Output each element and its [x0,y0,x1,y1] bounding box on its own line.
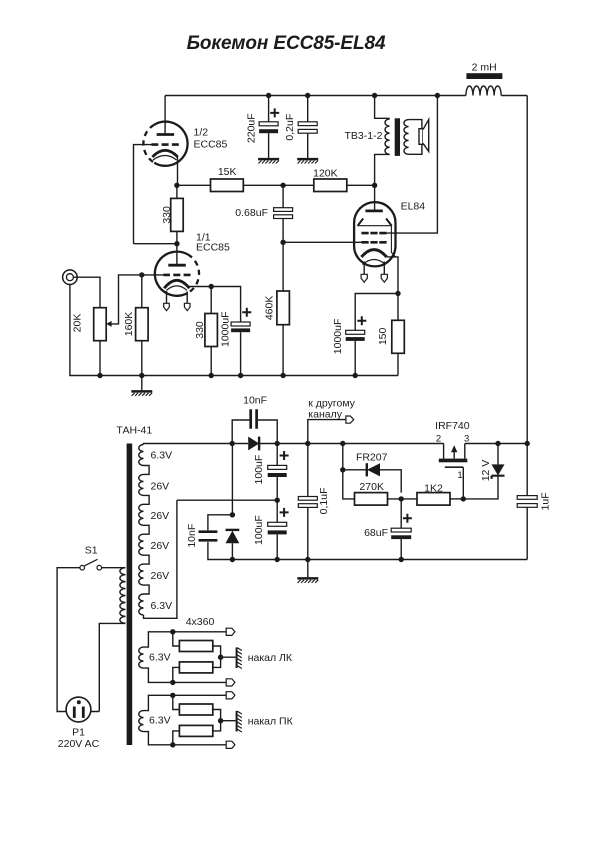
junction dot [275,557,280,562]
capacitor 68uF plus sign [403,514,412,523]
capacitor 0,2uF lead bottom [307,133,309,158]
svg-text:68uF: 68uF [364,527,388,539]
svg-text:0,2uF: 0,2uF [284,114,296,141]
tube V1 grid dashes [152,143,179,146]
junction dot [170,693,175,698]
capacitor 1000uF EL84 bottom lead [354,341,356,376]
input jack X1 [63,270,78,285]
capacitor 100uF lower plus plate [268,522,287,526]
capacitor 0,1uF leads [307,444,309,560]
resistor 360 R2 [173,667,180,682]
tube V1 grid lead [134,145,152,244]
diode D1 [248,437,259,451]
svg-text:2 mH: 2 mH [472,62,497,74]
tube V3 anode lead [374,185,376,211]
junction dot [275,441,280,446]
arrow output filament1 bottom [226,679,235,686]
junction dot [280,183,285,188]
svg-text:160K: 160K [123,312,135,337]
junction dot [97,373,102,378]
svg-text:460K: 460K [264,296,276,321]
capacitor 100uF upper leads [276,444,278,501]
svg-text:10nF: 10nF [243,394,267,406]
svg-text:12 V: 12 V [480,460,492,482]
transformer TAH-41 core bar [127,444,133,746]
tube V2 heater leads [167,291,188,303]
tube V1 1/2 ECC85 envelope [154,122,187,166]
transformer TAH-41 filament winding 6.3V upper [139,647,144,668]
tube V3 cathode lead [387,257,398,294]
wire mains right [102,567,126,569]
svg-text:2: 2 [436,434,441,445]
junction dot [170,742,175,747]
capacitor 100uF upper minus plate [268,473,287,477]
transformer TAH-41 filament winding 6.3V lower [139,711,144,732]
tube V2 anode plate [168,264,186,267]
tube V2 grid dashes [163,274,190,277]
capacitor 220uF minus plate [259,129,278,133]
tube V2 cathode lead [189,286,212,288]
capacitor 68uF leads [400,499,402,560]
svg-text:6.3V: 6.3V [149,652,171,664]
wire filament1 top [144,632,227,647]
transformer TAH-41 HV secondary winding 26V [139,534,149,564]
transformer TAH-41 HV secondary winding 26V [139,504,149,534]
inductor L1 2mH coil [466,86,501,96]
transistor Q1 IRF740 body bar [439,459,468,463]
capacitor 10nF plates [251,409,257,428]
svg-text:ТАН-41: ТАН-41 [116,425,152,437]
capacitor 100uF lower minus plate [268,530,287,534]
junction dot [495,441,500,446]
junction dot [372,93,377,98]
tube V2 heater pin [164,303,170,310]
wire resistor midpoint lower [213,710,236,731]
tube V1 cathode arc [152,150,177,157]
junction dot [275,498,280,503]
wire resistor midpoint [213,646,236,667]
capacitor 0.68uF plates [274,208,293,212]
wire primary bottom to plug [91,623,126,711]
capacitor 68uF plus plate [391,528,411,532]
diode D2 leads [231,444,233,560]
wire filament1 bottom [144,668,227,682]
wire right B+ drop [526,96,528,444]
svg-text:10nF: 10nF [186,524,198,548]
junction dot [280,240,285,245]
capacitor 1000uF EL84 minus plate [346,337,365,341]
svg-text:330: 330 [194,321,206,339]
junction dot [174,183,179,188]
wire HV secondary top tap [144,444,233,445]
capacitor 1000uF cathode leads [211,287,240,376]
junction dot [525,441,530,446]
resistor 330 anode [176,185,178,243]
potentiometer 20K body [94,308,107,341]
svg-text:3: 3 [464,434,469,445]
junction dot [230,441,235,446]
tube V2 heater arc [166,286,187,291]
speaker LS1 [419,129,423,145]
capacitor 1000uF plus plate [231,322,250,326]
wire filament2 top [144,695,227,710]
wire grid node to pot wiper [111,275,142,324]
resistor 15K [177,184,283,186]
wire EL84 control grid feed [283,241,361,243]
inductor L1 core bar [466,73,502,79]
capacitor 1uF plates [517,496,537,500]
arrow output filament1 top [226,628,235,635]
diode FR207 leads [343,470,401,493]
junction dot [435,93,440,98]
svg-text:накал ПК: накал ПК [248,715,294,727]
zener diode 12V leads [463,444,498,499]
capacitor 100uF upper plus plate [268,465,287,469]
transformer TB3-1-2 primary winding [385,119,390,154]
resistor 330 cathode [210,287,212,376]
junction dot [280,373,285,378]
svg-text:1000uF: 1000uF [219,311,231,347]
svg-text:P1: P1 [72,727,85,739]
wire grid link horizontal [134,243,177,245]
svg-text:26V: 26V [151,510,170,522]
svg-text:15K: 15K [218,166,237,178]
junction dot [209,373,214,378]
svg-text:26V: 26V [151,540,170,552]
junction dot [174,241,179,246]
capacitor 0,1uF plates [298,497,317,501]
svg-text:ТВ3-1-2: ТВ3-1-2 [345,130,383,142]
junction dot [372,183,377,188]
svg-text:S1: S1 [85,545,98,557]
tube V3 heater arc [363,260,386,265]
ground symbol under 220uF [258,158,279,161]
resistor 150 [397,294,399,376]
tube V3 heater pin [361,274,367,282]
wire B+ top rail [165,95,527,97]
svg-text:330: 330 [161,206,173,224]
wire rail after MOSFET [465,443,527,445]
tube V3 heater pin [381,274,387,282]
svg-text:1K2: 1K2 [424,483,443,495]
junction dot [139,272,144,277]
svg-text:4x360: 4x360 [186,616,215,628]
svg-text:0,1uF: 0,1uF [318,487,330,514]
junction dot [139,373,144,378]
diode D2 [226,531,240,544]
junction dot [170,680,175,685]
junction dot [170,629,175,634]
capacitor 1000uF plus sign [242,308,251,317]
svg-text:26V: 26V [151,570,170,582]
tube V2 grid lead [142,274,163,276]
wire secondary to speaker [409,120,422,155]
tube V2 anode lead [176,244,178,266]
junction dot [305,557,310,562]
svg-text:1uF: 1uF [540,492,552,510]
capacitor 10nF bypass loop top [232,420,277,444]
svg-text:1000uF: 1000uF [332,319,344,355]
junction dot [218,655,223,660]
tube V1 anode lead [164,96,166,135]
capacitor 1000uF EL84 plus sign [357,316,366,325]
resistor 1K2 [417,493,450,506]
svg-text:100uF: 100uF [253,515,265,545]
capacitor 0,2uF plates [298,122,317,126]
transformer TAH-41 HV secondary winding 26V [139,474,149,504]
resistor 360 R3 [173,695,180,709]
svg-text:20K: 20K [72,314,84,333]
tube V2 heater pin [184,303,190,310]
svg-text:накал ЛК: накал ЛК [248,652,293,664]
svg-text:6.3V: 6.3V [151,450,173,462]
svg-text:100uF: 100uF [253,455,265,485]
tube V2 1/1 ECC85 envelope [155,252,188,296]
wire EL84 screen grid feed [387,96,438,234]
capacitor 220uF plus sign [270,108,279,117]
ground symbol under 0,2uF [297,158,318,161]
wire TB3 primary bottom to anode node [375,154,390,185]
junction dot [399,496,404,501]
capacitor 68uF minus plate [391,535,411,539]
tube V3 EL84 envelope [354,202,395,266]
capacitor 100uF lower plus sign [280,508,289,517]
tube V3 anode plate [365,209,382,212]
svg-text:ECC85: ECC85 [194,139,228,151]
transformer TB3-1-2 core bar [395,118,400,156]
zener diode 12V [492,464,505,475]
transformer TB3-1-2 secondary winding [404,120,409,155]
resistor 120K [283,184,375,186]
resistor 360 R4 [173,731,180,745]
svg-text:1: 1 [457,470,462,481]
tube V1 cathode lead [177,157,179,185]
svg-text:EL84: EL84 [401,201,426,213]
transformer TAH-41 HV secondary winding 6.3V [139,594,144,615]
svg-text:6.3V: 6.3V [149,715,171,727]
junction dot [340,441,345,446]
capacitor 220uF plus plate [259,122,278,126]
capacitor 1000uF minus plate [231,328,250,332]
svg-text:6.3V: 6.3V [151,600,173,612]
svg-text:IRF740: IRF740 [435,420,470,432]
svg-text:220V AC: 220V AC [58,738,100,750]
junction dot [209,284,214,289]
wire PSU ground bus [232,559,527,561]
transformer TAH-41 HV secondary winding 6.3V [139,445,149,475]
svg-text:каналу: каналу [308,408,342,420]
wire to other channel [308,420,346,444]
svg-text:120K: 120K [313,168,338,180]
tube V1 anode plate [157,133,175,136]
wire ground bus [100,375,398,377]
wire HV secondary bottom tap [144,500,177,618]
junction dot [353,373,358,378]
chassis ground symbol PK [236,711,238,732]
capacitor 10nF lower plates [199,532,218,541]
capacitor 0,2uF lead top [307,96,309,122]
junction dot [395,291,400,296]
wire jack to pot top [73,277,100,308]
transistor Q1 IRF740 substrate arrow [453,450,455,459]
resistor 270K [355,493,388,506]
svg-text:FR207: FR207 [356,451,388,463]
diode FR207 [367,463,380,476]
transistor Q1 IRF740 drain-source leads [444,444,465,459]
transformer TAH-41 HV secondary winding 26V [139,564,149,594]
junction dot [266,93,271,98]
junction dot [305,93,310,98]
tube V1 heater arc [153,156,177,161]
capacitor 0.68uF leads [282,185,284,242]
resistor 460K [282,242,284,375]
wire doubler midpoint [177,499,277,501]
junction dot [305,441,310,446]
junction dot [230,557,235,562]
wire TB3 primary top feed [375,96,390,119]
tube V3 control grid dashes [361,241,386,244]
junction dot [399,557,404,562]
plug P1 [66,697,91,722]
capacitor 100uF lower leads [276,500,278,559]
tube V3 heater leads [364,262,384,275]
svg-text:26V: 26V [151,480,170,492]
tube V3 cathode arc [361,250,386,257]
ground symbol PSU [307,560,309,578]
svg-text:0.68uF: 0.68uF [235,207,268,219]
transformer TAH-41 primary winding [120,568,126,624]
junction dot [340,467,345,472]
svg-text:1/2: 1/2 [194,127,209,139]
wire FR207 branch vertical [343,444,355,499]
tube V3 screen grid dashes [361,232,386,235]
switch S1 [80,565,85,570]
svg-text:ECC85: ECC85 [196,241,230,253]
svg-text:270K: 270K [359,481,384,493]
junction dot [218,718,223,723]
svg-text:220uF: 220uF [246,113,258,143]
tube V3 beam plates [358,219,392,226]
capacitor 100uF upper plus sign [280,451,289,460]
wire cathode node [355,294,398,331]
junction dot [461,496,466,501]
ground symbol main [141,376,143,391]
capacitor 1000uF EL84 plus plate [346,330,365,334]
arrow output filament2 top [226,692,235,699]
chassis ground symbol LK [236,647,238,668]
junction dot [238,373,243,378]
wire rectifier rail [232,443,443,445]
resistor 360 R1 [173,632,180,646]
potentiometer 20K wiper arrow [106,321,111,327]
svg-text:Бокемон ECC85-EL84: Бокемон ECC85-EL84 [187,33,386,54]
svg-text:150: 150 [377,327,389,345]
transistor Q1 IRF740 gate [445,466,464,468]
junction dot [230,512,235,517]
arrow output filament2 bottom [226,741,235,748]
resistor 160K [141,275,143,376]
arrow to other channel [346,416,354,423]
capacitor 1uF leads [526,444,528,560]
wire mains left [57,568,80,712]
potentiometer 20K bottom lead [99,341,101,376]
capacitor 220uF lead top [268,96,270,122]
capacitor 10nF lower bypass loop [208,515,233,560]
tube V2 cathode arc [164,280,189,288]
wire jack ground [70,285,100,376]
wire filament2 bottom [144,732,227,745]
capacitor 220uF lead bottom [268,133,270,158]
